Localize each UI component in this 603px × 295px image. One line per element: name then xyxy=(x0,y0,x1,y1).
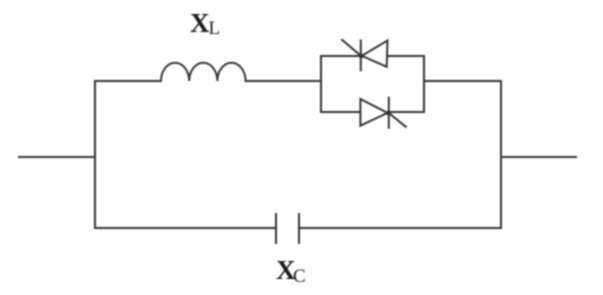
wire right terminal stub xyxy=(501,156,576,158)
wire bottom right horizontal xyxy=(299,227,501,229)
wire top-left horizontal xyxy=(95,80,161,82)
wire box top right segment xyxy=(387,55,424,57)
capacitor XC right plate xyxy=(298,214,300,243)
wire left vertical xyxy=(94,81,96,228)
label XL xyxy=(190,8,220,39)
node junction dot Q2 xyxy=(386,111,391,116)
wire box bottom right segment xyxy=(389,111,424,113)
wire inductor to thyristor box xyxy=(246,80,321,82)
thyristor Q2 gate xyxy=(389,113,406,127)
thyristor Q2 triangle xyxy=(360,99,387,126)
wire bottom left horizontal xyxy=(95,227,276,229)
node junction dot Q1 xyxy=(359,54,364,59)
wire box bottom left segment xyxy=(321,111,360,113)
node box right vertical xyxy=(423,56,425,112)
wire box top left segment xyxy=(321,55,361,57)
label XC xyxy=(276,255,306,286)
node box left vertical xyxy=(320,56,322,112)
capacitor XC left plate xyxy=(275,214,277,243)
thyristor Q1 triangle xyxy=(362,41,388,67)
wire right vertical xyxy=(500,81,502,228)
thyristor Q1 cathode bar xyxy=(360,41,362,71)
wire box to right vertical xyxy=(424,80,501,82)
thyristor Q2 cathode bar xyxy=(388,98,390,128)
inductor XL xyxy=(161,63,246,81)
wire left terminal stub xyxy=(19,156,95,158)
thyristor Q1 gate xyxy=(342,40,362,57)
